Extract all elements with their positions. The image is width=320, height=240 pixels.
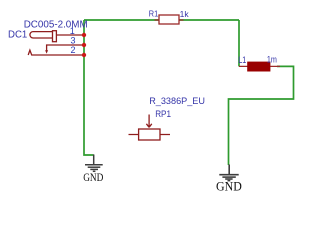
resistor R1 body	[159, 15, 179, 24]
svg-text:1m: 1m	[267, 54, 277, 64]
potentiometer RP1 wiper arrow	[146, 115, 151, 128]
svg-text:DC005-2.0MM: DC005-2.0MM	[24, 19, 88, 30]
svg-text:R1: R1	[149, 10, 159, 19]
junction dot pin1	[82, 33, 86, 37]
pin 1 lead	[56, 34, 84, 36]
connector DC1 barrel	[30, 32, 53, 38]
svg-text:R_3386P_EU: R_3386P_EU	[149, 96, 205, 107]
resistor R1 pins	[155, 19, 184, 21]
svg-text:1k: 1k	[180, 10, 190, 19]
switch arrowhead	[45, 50, 48, 53]
connector DC1 sleeve bar	[53, 31, 57, 42]
wire: right vertical from top corner to L1	[238, 20, 240, 66]
svg-text:GND: GND	[83, 172, 103, 184]
pin 2 lead with spring contact	[28, 50, 84, 55]
pin 3 lead with switch arm	[47, 45, 84, 51]
svg-text:L1: L1	[238, 55, 246, 65]
potentiometer RP1 leads	[129, 134, 171, 136]
svg-text:1: 1	[70, 26, 75, 36]
junction dot pin2	[82, 53, 86, 57]
ground symbol left	[85, 155, 103, 172]
ground symbol right	[219, 165, 238, 181]
potentiometer RP1 body	[139, 129, 160, 140]
wire: L1 output down-left to right GND	[229, 66, 294, 165]
wire: jack vertical bus down to left GND	[84, 20, 94, 155]
wire top: jack to resistor to right corner	[84, 19, 239, 21]
svg-text:DC1: DC1	[8, 30, 28, 41]
inductor L1 pins	[239, 65, 280, 67]
antialias neutralizer (invisible)	[0, 0, 1, 1]
svg-text:GND: GND	[216, 180, 242, 194]
junction dot pin3	[82, 43, 86, 47]
inductor L1 body	[247, 62, 270, 72]
svg-text:RP1: RP1	[155, 109, 171, 120]
svg-text:3: 3	[70, 35, 75, 45]
svg-text:2: 2	[70, 45, 75, 55]
